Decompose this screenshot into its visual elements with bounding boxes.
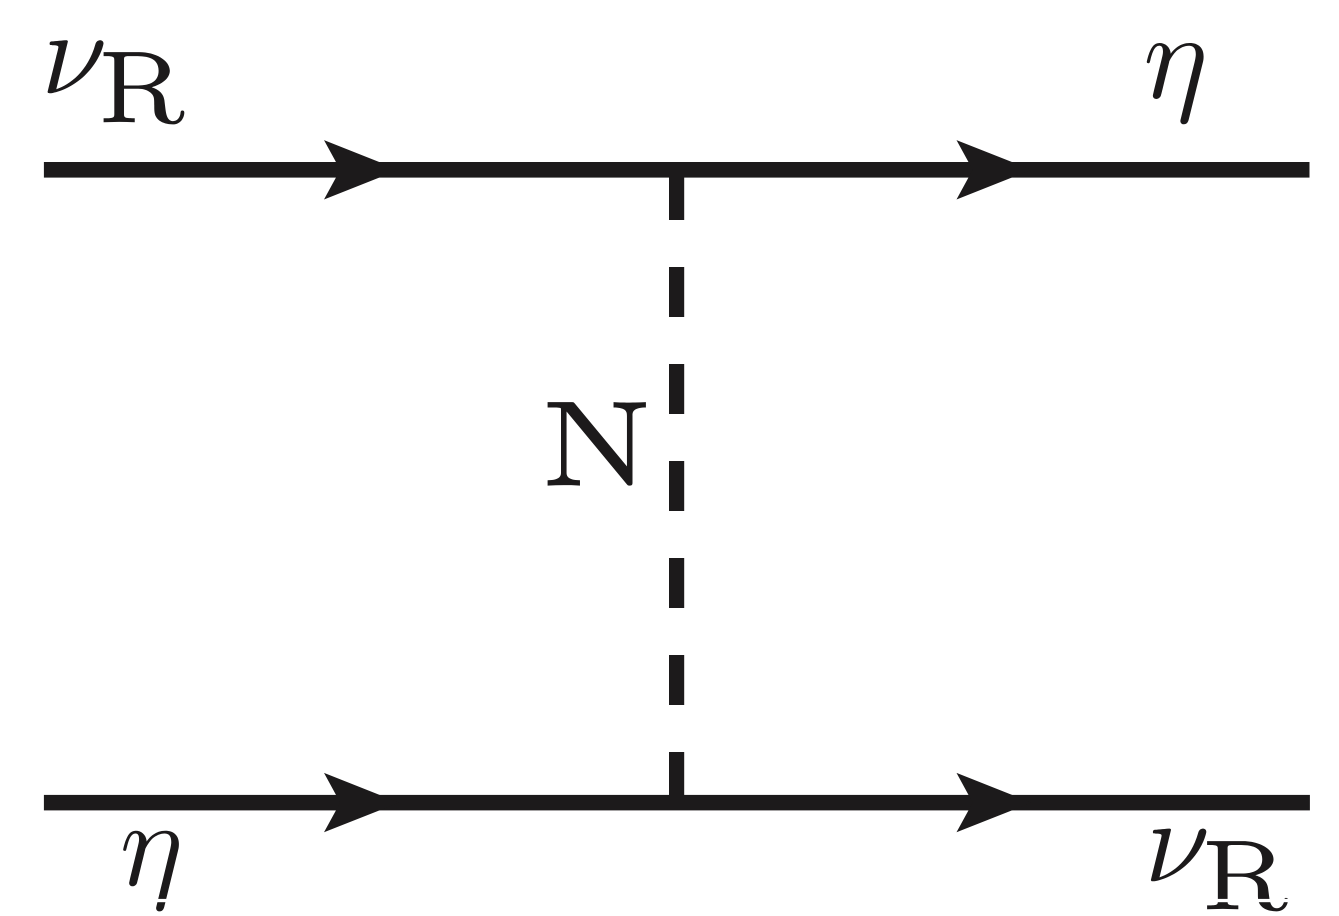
arrow on top line, left segment	[324, 140, 399, 199]
label nu_R (top-left incoming particle): nu glyph	[48, 40, 104, 93]
label eta (bottom-left incoming particle)	[123, 831, 179, 912]
wire: bottom fermion line (eta in -> nu_R out)	[44, 795, 1310, 811]
arrow on bottom line, left segment	[324, 773, 399, 832]
white raster seam artifact across descenders	[0, 899, 1339, 902]
label nu_R (bottom-right outgoing particle): nu glyph	[1151, 829, 1206, 882]
label eta (top-right outgoing particle)	[1147, 43, 1204, 124]
propagator: vertical dashed scalar line N between vertices	[669, 170, 684, 802]
label N (exchanged heavy neutrino propagator)	[548, 402, 646, 485]
wire: top fermion line (nu_R in -> eta out)	[44, 162, 1310, 178]
arrow on top line, right segment	[957, 140, 1032, 199]
arrow on bottom line, right segment	[957, 773, 1032, 832]
label nu_R (bottom-right): subscript R glyph	[1207, 841, 1288, 911]
label nu_R (top-left): subscript R glyph	[104, 52, 185, 124]
